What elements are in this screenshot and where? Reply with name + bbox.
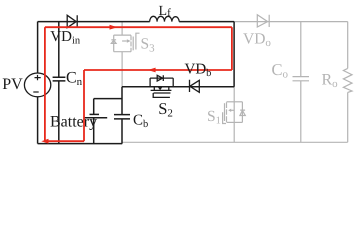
mosfet S1 channel dashes <box>226 102 228 122</box>
grey bottom rail (output side) <box>122 141 348 143</box>
red arrow right (top) <box>110 25 118 30</box>
mosfet S1 top jog <box>227 101 243 103</box>
mosfet S3 gate bracket <box>136 33 140 49</box>
Cb corner leg <box>121 87 123 144</box>
mosfet S3 source lead <box>121 52 123 87</box>
wire red mid <box>84 69 232 71</box>
mosfet S3 arrow head <box>127 39 131 43</box>
inductor Lf coil <box>150 16 180 21</box>
mosfet S3 bottom jog <box>114 51 131 53</box>
red arrow left (mid) <box>148 68 156 73</box>
mosfet S1 body diode <box>240 110 245 115</box>
mosfet S3 body-diode leg <box>113 35 115 52</box>
battery short plate <box>90 113 100 115</box>
capacitor Cn plates <box>53 77 66 81</box>
battery leads <box>93 99 95 144</box>
switch S2 bypass wire <box>150 77 173 79</box>
svg-text:Battery: Battery <box>50 114 97 131</box>
mosfet S3 arrow <box>122 40 127 42</box>
PV plus sign <box>35 75 41 80</box>
mosfet S1 source lead <box>233 122 235 142</box>
switch S2 channel <box>151 89 172 91</box>
mosfet S3 body diode <box>111 40 116 44</box>
left rail upper <box>37 22 39 73</box>
switch S2 arrow <box>158 87 162 90</box>
wire red left leg <box>44 27 46 141</box>
switch S2 bypass risers <box>150 78 173 87</box>
wire red top <box>45 26 232 28</box>
battery long plate <box>84 117 107 119</box>
PV minus sign <box>33 91 38 93</box>
top rail <box>38 21 235 23</box>
bottom rail <box>38 143 123 145</box>
source PV circle <box>24 73 50 97</box>
mid wire <box>122 86 234 88</box>
wire red bottom <box>45 140 84 142</box>
resistor Ro branch <box>347 22 349 143</box>
wire red right leg <box>231 27 233 70</box>
mosfet S1 gate bracket <box>223 112 226 123</box>
mosfet S1 bottom jog <box>227 121 243 123</box>
diode VDb <box>190 80 200 93</box>
wire red mid-left leg <box>83 70 85 141</box>
resistor Ro zigzag <box>343 68 352 92</box>
capacitor Cb plates <box>114 115 130 119</box>
battery top wire <box>94 98 122 100</box>
mosfet S1 gate bar <box>224 103 226 121</box>
svg-text:Lf: Lf <box>159 4 172 19</box>
svg-text:PV: PV <box>2 76 23 93</box>
red arrow left (bottom) <box>41 139 48 144</box>
mosfet S1 arrow head <box>228 109 231 112</box>
red current loop <box>45 27 232 141</box>
grey top rail (output side) <box>234 21 348 23</box>
diode VDo <box>257 15 269 27</box>
mosfet S1 drain lead <box>233 87 235 102</box>
diode VDin <box>67 15 77 27</box>
mosfet S3 top jog <box>114 34 131 36</box>
switch S2 gate bar <box>154 92 171 94</box>
capacitor Co branch <box>300 22 302 143</box>
mosfet S3 drain lead <box>121 22 123 35</box>
capacitor Cn branch <box>58 22 60 144</box>
left rail lower <box>37 97 39 144</box>
mosfet S1 body-diode leg <box>241 102 243 123</box>
switch S2 drain/source stubs <box>154 87 169 91</box>
mosfet S3 gate bar <box>132 37 134 51</box>
mosfet S3 channel dashes <box>130 35 132 51</box>
capacitor Co plates <box>293 77 310 81</box>
switch S2 body diode <box>157 75 163 81</box>
switch S2 gate lead <box>153 93 170 97</box>
mosfet S1 arrow stem <box>231 109 234 111</box>
right leg <box>233 22 235 87</box>
mosfet S1 body line <box>233 102 235 123</box>
